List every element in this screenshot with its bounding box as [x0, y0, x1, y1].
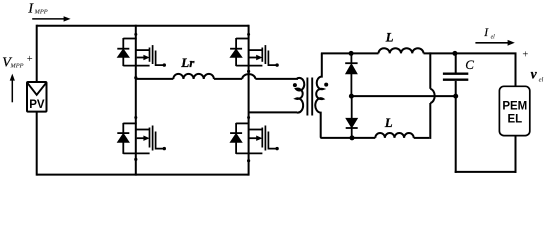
Q3 drain junction dot — [134, 116, 137, 119]
wire: bottom L coil to join vertical — [414, 137, 430, 139]
Q3 source/bottom wire of cell — [123, 152, 149, 154]
transformer primary polarity dot — [293, 83, 297, 87]
Q4 drain junction dot — [247, 116, 250, 119]
Q1 body diode (antiparallel) — [122, 38, 124, 49]
wire: middle node to capacitor bottom — [351, 95, 455, 97]
svg-text:+: + — [522, 50, 528, 61]
Q2 body diode (antiparallel) — [235, 38, 237, 49]
wire: return vertical below capacitor — [455, 96, 457, 173]
MOSFET Q1 (top-left) with body diode — [117, 33, 166, 67]
inductor Lr coil — [173, 74, 214, 79]
crossover hump over right leg — [242, 74, 255, 79]
svg-text:EL: EL — [507, 114, 522, 126]
junction dot: Q2 source — [247, 70, 250, 73]
Q3 gate lead with terminal dot — [156, 132, 164, 149]
Q1 channel bar — [149, 48, 151, 62]
Q4 gate bar — [264, 126, 266, 151]
Q3 drain lead to channel — [136, 129, 150, 131]
Q4 body arrow (points into channel) — [250, 137, 257, 139]
junction dot: middle node — [349, 94, 354, 99]
crossover hump over middle wire — [430, 89, 434, 103]
Q1 gate bar — [152, 45, 154, 64]
PEM EL bottom lead — [515, 136, 517, 173]
PEM EL electrolyzer box — [499, 86, 529, 135]
Q4 drain-to-diode branch wire — [236, 122, 249, 124]
Q4 channel bar — [261, 128, 263, 148]
junction dot: Q3 source — [134, 158, 137, 161]
Q2 drain-to-diode branch wire — [236, 38, 249, 40]
inductor L (top) coil — [379, 48, 424, 53]
Q1 drain-to-diode branch wire — [123, 38, 136, 40]
wire: hump to transformer primary — [255, 78, 298, 80]
Q2 drain lead to channel — [249, 49, 263, 51]
svg-text:L: L — [385, 31, 394, 45]
PV panel box — [27, 82, 47, 112]
svg-text:Lr: Lr — [180, 55, 195, 70]
Q2 gate lead with terminal dot — [268, 51, 276, 66]
svg-text:I: I — [483, 27, 489, 39]
arrow for V_MPP (up) — [11, 80, 13, 103]
wire: secondary top to L coil — [321, 52, 379, 54]
svg-text:MPP: MPP — [34, 8, 48, 15]
Q3 gate bar — [152, 126, 154, 151]
wire: bottom DC rail — [37, 174, 249, 176]
diode D2 (bottom, cathode down) — [351, 96, 353, 118]
wire: right bridge leg vertical — [248, 25, 250, 176]
junction dot: top diode cathode node — [349, 51, 354, 56]
Q2 body arrow (points into channel) — [250, 57, 257, 59]
svg-text:+: + — [27, 54, 33, 65]
wire: left vertical below PV — [36, 112, 38, 176]
svg-text:I: I — [27, 2, 34, 17]
junction dot: Q1 source / Lr tap — [134, 76, 137, 79]
junction dot: capacitor top — [452, 51, 457, 56]
svg-text:PV: PV — [29, 99, 45, 111]
wire: Lr to crossover hump — [214, 78, 242, 80]
svg-text:v: v — [531, 66, 538, 81]
svg-text:MPP: MPP — [9, 63, 23, 70]
arrow for I_el (right) — [475, 42, 508, 44]
Q1 drain junction dot — [134, 33, 137, 36]
Q4 drain lead to channel — [249, 129, 263, 131]
wire: left bridge leg vertical — [135, 25, 137, 176]
wire: join vertical (lower part) — [429, 103, 431, 139]
diode D1 (top, cathode up) — [350, 53, 352, 63]
Q2 gate bar — [264, 45, 266, 64]
wire: left vertical above PV — [36, 25, 38, 82]
Q3 body arrow (points into channel) — [137, 137, 144, 139]
transformer core lines — [306, 78, 308, 116]
Q3 channel bar — [149, 128, 151, 148]
junction dot: bottom diode cathode node — [350, 135, 355, 140]
junction dot: capacitor bottom / return — [453, 94, 458, 99]
wire: right midpoint to primary bottom — [249, 111, 298, 113]
transformer primary winding — [296, 78, 304, 113]
Q1 gate lead with terminal dot — [156, 51, 164, 66]
wire: bottom return — [455, 171, 517, 173]
capacitor C plates — [443, 72, 468, 74]
Q3 body diode (antiparallel) — [122, 123, 124, 133]
svg-text:el: el — [539, 77, 544, 84]
svg-text:PEM: PEM — [502, 101, 527, 113]
inductor L (bottom) coil — [375, 133, 413, 138]
MOSFET Q2 (top-right) with body diode — [230, 33, 279, 67]
svg-text:el: el — [491, 34, 496, 40]
Q1 body arrow (points into channel) — [137, 57, 144, 59]
svg-text:C: C — [465, 57, 474, 72]
Q4 body diode (antiparallel) — [235, 123, 237, 133]
wire: top L coil to output corner — [424, 53, 516, 85]
junction dot: Q4 source — [247, 159, 250, 162]
Q2 drain junction dot — [247, 33, 250, 36]
PV box chevron — [28, 83, 46, 95]
transformer secondary polarity dot — [324, 83, 328, 87]
wire: left midpoint to Lr coil — [136, 78, 174, 80]
wire: join vertical (upper part) — [429, 52, 431, 88]
Q1 drain lead to channel — [136, 49, 150, 51]
wire: secondary bottom to L coil — [322, 137, 376, 139]
capacitor C bottom lead — [455, 81, 457, 96]
Q3 drain-to-diode branch wire — [123, 122, 136, 124]
arrow for I_MPP (right) — [32, 18, 64, 20]
MOSFET Q4 (bottom-right) with body diode — [230, 116, 279, 154]
capacitor C top lead — [455, 53, 457, 72]
svg-text:L: L — [384, 116, 393, 130]
MOSFET Q3 (bottom-left) with body diode — [117, 116, 166, 154]
Q4 gate lead with terminal dot — [268, 132, 276, 149]
transformer secondary winding — [315, 53, 323, 137]
Q1 source/bottom wire of cell — [123, 65, 149, 67]
Q2 channel bar — [261, 48, 263, 62]
Q4 source/bottom wire of cell — [236, 152, 262, 154]
Q2 source/bottom wire of cell — [236, 65, 262, 67]
wire: top DC rail — [37, 25, 249, 27]
